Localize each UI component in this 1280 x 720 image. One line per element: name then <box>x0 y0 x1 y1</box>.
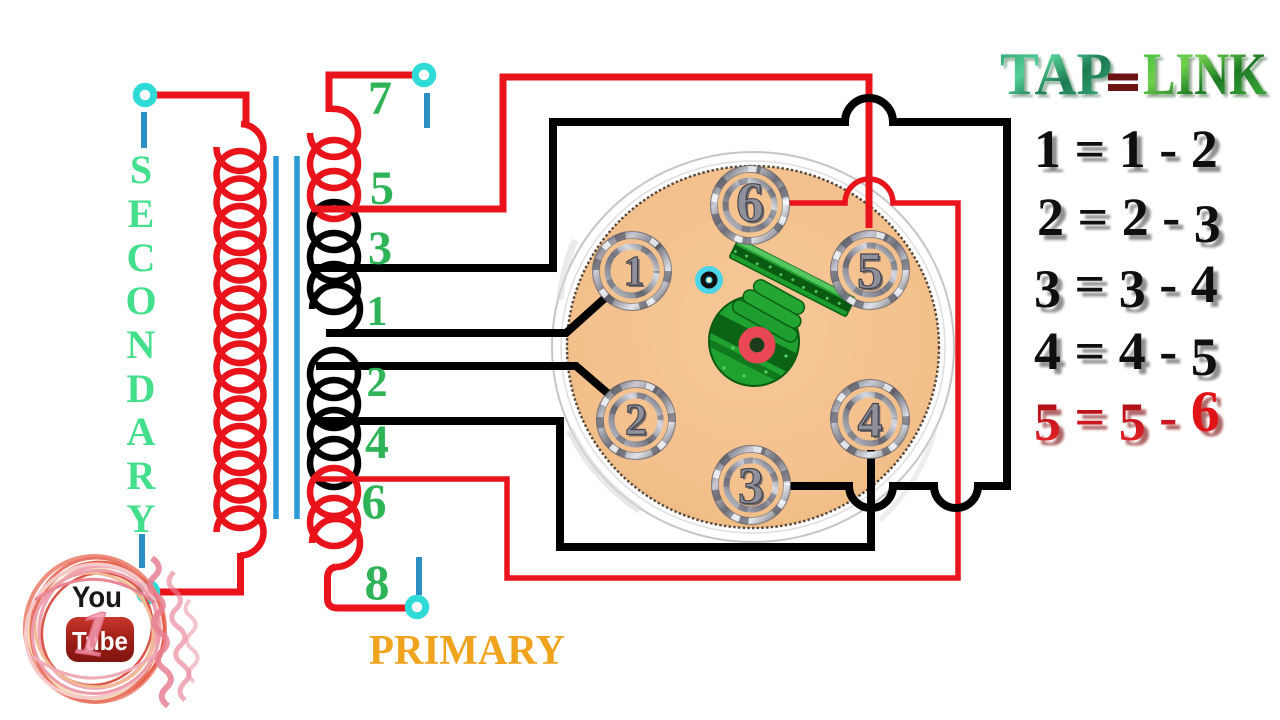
terminal ring 7 <box>415 66 433 84</box>
svg-text:5: 5 <box>370 162 394 215</box>
svg-text:3 = 3 - 4: 3 = 3 - 4 <box>1034 254 1218 319</box>
rotary selector red hub <box>744 332 770 358</box>
terminal post stub 8 <box>416 557 422 595</box>
svg-text:4 = 4 - 5: 4 = 4 - 5 <box>1034 321 1218 387</box>
svg-text:E: E <box>128 191 155 236</box>
wire tap 1 to disc terminal 1 <box>326 298 605 333</box>
svg-text:A: A <box>127 409 156 454</box>
svg-text:7: 7 <box>368 72 392 125</box>
label SECONDARY <box>125 147 156 541</box>
label TAP=LINK <box>1000 41 1270 110</box>
terminal ring top left <box>136 86 154 104</box>
wire tap 8 lead <box>327 567 407 608</box>
terminal ring bottom left <box>139 583 157 601</box>
transformer primary winding lower section black turns <box>310 350 358 487</box>
svg-text:5: 5 <box>857 243 883 300</box>
disc terminal 2 <box>597 381 676 460</box>
transformer core <box>276 156 297 519</box>
svg-text:LINK: LINK <box>1143 41 1267 107</box>
disc terminal 1 <box>593 232 672 311</box>
wire tap 5 to disc terminal 5 <box>312 77 869 228</box>
watermark youtube wreath <box>0 537 188 720</box>
svg-text:3: 3 <box>738 458 764 515</box>
svg-text:4: 4 <box>365 416 389 469</box>
rotary selector upper lobes <box>746 246 799 289</box>
wire secondary bottom lead <box>156 553 241 592</box>
svg-text:2: 2 <box>367 360 388 406</box>
watermark side script <box>150 558 198 706</box>
label link row 5 <box>1034 379 1225 457</box>
disc terminal 5 <box>831 231 910 310</box>
disc terminal 6 <box>711 166 790 245</box>
svg-text:C: C <box>127 235 156 280</box>
wire tap 4 to disc terminal 4 <box>312 421 871 547</box>
label link row 1 <box>1034 119 1223 184</box>
wire tap 7 lead <box>329 75 413 112</box>
wire tap 6 to disc terminal 6 <box>312 179 958 578</box>
svg-text:N: N <box>127 322 156 367</box>
terminal post stub 7 <box>424 93 430 128</box>
rotary selector knob disc <box>678 296 830 405</box>
transformer primary winding lower section red turns <box>310 468 360 567</box>
rotary switch disc outer white ring <box>552 152 954 542</box>
svg-text:S: S <box>130 147 152 192</box>
terminal post stub bottom left <box>139 534 145 568</box>
svg-text:6: 6 <box>736 172 764 234</box>
svg-text:1 = 1 - 2: 1 = 1 - 2 <box>1034 119 1218 179</box>
disc terminal 3 <box>712 446 791 525</box>
svg-text:PRIMARY: PRIMARY <box>369 628 565 674</box>
wire secondary top lead <box>155 95 246 125</box>
svg-text:O: O <box>125 278 156 323</box>
label link row 3 <box>1034 254 1223 324</box>
svg-text:2 = 2 - 3: 2 = 2 - 3 <box>1037 187 1221 254</box>
pivot dot <box>695 266 723 294</box>
transformer primary winding upper section black turns <box>310 202 360 333</box>
wire tap 2 to disc terminal 2 <box>316 366 612 397</box>
svg-text:6: 6 <box>362 473 387 529</box>
wire tap 3 to disc terminal 3 <box>312 98 1007 508</box>
transformer primary winding upper section red turns <box>310 109 358 219</box>
svg-text:1: 1 <box>367 289 388 335</box>
svg-text:2: 2 <box>625 395 647 444</box>
svg-text:4: 4 <box>858 391 883 447</box>
svg-text:3: 3 <box>368 222 392 275</box>
rotary selector mechanism green bar <box>729 239 855 317</box>
svg-text:Y: Y <box>127 496 156 541</box>
svg-text:8: 8 <box>365 554 390 610</box>
svg-text:1: 1 <box>624 249 645 295</box>
transformer secondary winding L1 <box>216 124 263 556</box>
svg-text:TAP: TAP <box>1000 41 1112 107</box>
terminal post stub top left <box>141 112 147 148</box>
rotary switch disc peach plate <box>567 166 939 528</box>
watermark youtube logo text <box>66 581 134 672</box>
svg-text:R: R <box>127 453 157 498</box>
disc terminal 4 <box>831 380 910 459</box>
svg-text:D: D <box>127 366 156 411</box>
label link row 4 <box>1034 321 1223 392</box>
label link row 2 <box>1037 187 1226 259</box>
rotary selector accordion bellows <box>730 277 807 344</box>
terminal ring 8 <box>408 598 426 616</box>
